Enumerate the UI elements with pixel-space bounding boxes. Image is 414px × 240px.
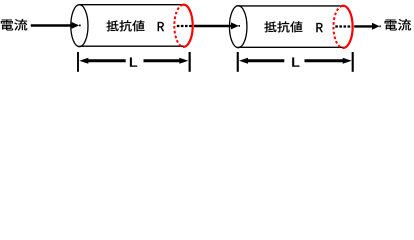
resistor R2: cylinder body outline [238,6,343,47]
wire: current arrow from R1 to R2 [194,22,240,29]
node label: output current 電流 [385,19,412,31]
wire: input current arrow into R1 [31,22,81,29]
resistor R1: cross-section ellipse, hidden left arc (red dashed) [174,5,183,47]
dimension line: length L of R2 [238,52,353,72]
label: 抵抗値 R of R2 [264,21,323,32]
resistor R1: cylinder body outline [79,5,184,47]
resistor R2: left end-cap ellipse [229,6,247,48]
label: 抵抗値 R of R1 [106,20,164,31]
wire: hidden current path through R2 cross-section (dashed) [335,25,352,27]
resistor R2: cross-section ellipse, solid right arc (red) [342,6,353,48]
node label: input current 電流 [1,19,28,31]
resistor R1: left end-cap ellipse [71,5,88,47]
wire: output current arrow out of R2 [354,23,381,30]
wire: hidden current path through R1 cross-section (dashed) [177,25,193,27]
resistor R2: cross-section ellipse, hidden left arc (red dashed) [333,6,342,48]
resistor R1: cross-section ellipse, solid right arc (red) [183,5,193,47]
dimension line: length L of R1 [78,52,190,72]
